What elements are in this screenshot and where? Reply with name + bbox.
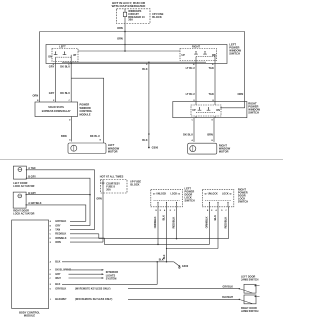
right door lock actuator A2 [13,192,26,208]
svg-text:B: B [50,225,52,227]
svg-text:A TAN: A TAN [28,167,35,170]
BCM riser from E BLK row [156,262,158,285]
svg-text:MODULE: MODULE [24,314,35,318]
svg-text:UP: UP [181,54,185,57]
wire DK BLU right switch to motor [193,118,195,142]
node: GRY splice at column [89,194,91,196]
right power door lock switch (dashed) [202,189,234,207]
svg-text:F: F [50,270,51,272]
svg-text:GRY/BLK: GRY/BLK [55,288,66,291]
svg-text:ORN/BLK: ORN/BLK [153,216,157,228]
svg-text:WITH RAP ENERGIZED: WITH RAP ENERGIZED [112,4,146,8]
internal ground bus of master switch [62,61,206,63]
wire BLK bus between lock switches [167,248,219,250]
wire DK BLU master switch to relay [70,64,72,103]
right window motor M2 [188,143,217,154]
wire B GRY from left actuator [26,178,90,225]
wire LT BLU master to right switch [195,64,197,102]
svg-text:BRN: BRN [207,132,213,136]
svg-text:D: D [221,210,223,212]
left power door lock switch (dashed) [151,189,183,207]
wire ORN down-left to express relay [39,32,41,103]
I/P fuse block (dashed box) [117,9,151,24]
svg-text:BRN: BRN [61,134,67,138]
wire DK BLU branch to left motor [71,78,104,143]
svg-text:E: E [212,120,214,122]
svg-text:D: D [50,274,52,276]
svg-text:A: A [50,220,52,223]
svg-text:SWITCH: SWITCH [185,199,195,203]
svg-text:SWITCH: SWITCH [229,52,240,56]
svg-text:ORN: ORN [96,197,102,200]
pin C wire stub [70,55,72,64]
svg-text:SWITCH: SWITCH [238,200,248,204]
svg-text:B: B [155,210,157,212]
svg-text:G300: G300 [152,146,159,150]
svg-text:GRY: GRY [55,273,61,276]
svg-text:UNLOCK: UNLOCK [156,194,166,196]
wire ORN down-right to right window switch [244,32,246,102]
svg-text:BLK/WHT: BLK/WHT [55,298,67,301]
wire TAN master to right switch [214,64,216,102]
I/P fuse block lower (dashed box) [101,180,128,194]
svg-text:G300: G300 [182,264,189,268]
wire ORN/BLK bus to lock switches [103,238,105,244]
svg-text:SOLID STATE: SOLID STATE [48,106,64,109]
svg-text:POWER: POWER [80,102,90,106]
svg-text:ORN: ORN [237,92,243,96]
svg-text:BLK: BLK [55,261,60,264]
svg-text:LOCK: LOCK [170,194,177,196]
svg-text:LT BLU: LT BLU [186,66,195,70]
svg-text:A: A [191,139,193,142]
node: BLK splice [148,133,150,135]
svg-text:A: A [50,229,52,232]
svg-text:C: C [50,234,52,236]
right door jamb switch [244,295,256,304]
wire ORN feed line to left relay and right switch [40,31,245,33]
svg-text:LT BLU: LT BLU [186,92,195,96]
svg-text:20A: 20A [106,189,111,192]
svg-text:DK BLU: DK BLU [90,134,100,138]
svg-text:DK BLU: DK BLU [60,91,70,95]
svg-text:SYSTEM: SYSTEM [106,277,117,281]
svg-text:MOTOR: MOTOR [219,150,229,154]
wire RED/BLK bus to lock switches [98,234,100,239]
svg-text:RED/BLK: RED/BLK [224,217,228,229]
svg-text:LOCK: LOCK [222,194,229,196]
wire B GRY from right actuator [26,194,90,196]
svg-text:LOCK ACTUATOR: LOCK ACTUATOR [13,213,34,216]
svg-text:ORN: ORN [117,26,123,30]
svg-text:UP: UP [192,109,196,112]
svg-text:D: D [170,210,172,212]
pin wire stubs right sub-switch [195,57,197,64]
svg-text:RED/BLK: RED/BLK [55,233,66,236]
svg-text:A GRY/BLK: A GRY/BLK [28,202,42,205]
svg-text:A: A [50,261,52,264]
svg-text:LEFT: LEFT [59,45,66,49]
svg-text:BLK: BLK [162,215,166,220]
svg-text:WHT: WHT [55,277,61,280]
svg-text:C: C [174,210,176,212]
svg-text:E: E [50,242,52,244]
svg-text:E: E [160,210,162,212]
svg-text:BLK: BLK [55,283,60,286]
node: ORN splice on feed line [124,31,126,33]
svg-text:DN: DN [48,55,52,58]
svg-text:BLK: BLK [142,138,147,142]
svg-text:RED/BLK: RED/BLK [172,217,176,229]
wire GRY master switch to relay [55,64,57,103]
left door jamb switch [244,284,256,293]
svg-text:E: E [50,284,52,286]
wire BRN right switch to motor [213,118,215,142]
pin stubs inside right switch [195,102,197,106]
svg-text:B GRY: B GRY [28,175,36,178]
svg-text:E: E [211,210,213,212]
svg-text:GRY/BLK: GRY/BLK [223,286,234,288]
svg-text:MOTOR: MOTOR [108,149,118,153]
wire ORN from breaker down to master switch [124,24,126,45]
svg-text:BLOCK: BLOCK [152,15,162,19]
node: DK BLU pin splice [70,63,72,65]
left power window switch outer box U1 [46,45,227,64]
svg-text:DN: DN [216,109,220,112]
svg-text:C: C [225,210,227,212]
svg-text:C: C [50,278,52,280]
body control module [12,220,49,309]
wire ORN/BLK left lock switch [157,207,159,245]
wire ORN/BLK right lock switch [209,207,211,245]
svg-text:ORN: ORN [117,37,123,41]
wire RED/BLK right lock switch [228,207,230,239]
svg-text:BLK: BLK [164,254,166,259]
svg-text:LOCK ACTUATOR: LOCK ACTUATOR [13,185,34,188]
left sub-switch contacts [55,52,57,55]
svg-text:TAN: TAN [208,92,213,96]
svg-text:BLK/WHT: BLK/WHT [222,297,233,299]
wire BLK master switch ground [148,64,150,148]
right switch internal feed from ORN [221,102,245,108]
svg-text:J: J [50,299,51,301]
svg-text:TAN: TAN [55,229,60,232]
svg-text:UP: UP [73,54,77,57]
right switch sub-switch dashed box [191,105,221,116]
wire BRN relay to left window motor [71,117,73,142]
left window sub-switch (dashed) [52,49,78,62]
svg-text:GRY/BLK: GRY/BLK [55,220,66,223]
svg-text:ORN: ORN [55,241,61,244]
svg-text:A: A [69,139,71,142]
svg-text:HOT AT ALL TIMES: HOT AT ALL TIMES [100,175,124,179]
svg-text:GRY: GRY [49,64,55,68]
svg-text:ORN/BLK: ORN/BLK [205,216,209,228]
svg-text:MODULE: MODULE [80,113,91,117]
svg-text:JAMB SWITCH: JAMB SWITCH [241,310,259,313]
svg-text:B: B [193,64,195,66]
left door lock actuator A1 [13,166,26,179]
wire GRY/BLK to left jamb switch [128,288,239,290]
svg-text:SWITCH: SWITCH [248,110,259,114]
svg-text:BLK: BLK [213,215,217,220]
wire diagonal to ground [174,262,180,266]
svg-text:BLOCK: BLOCK [130,182,139,186]
svg-text:C: C [192,120,194,122]
wire RED/BLK left lock switch [176,207,178,239]
circuit breaker symbol, WINDOWS CIRCUIT BREAKER 10 30A [124,9,126,12]
svg-text:D: D [50,238,52,240]
wire A GRY/BLK from right actuator [26,205,86,222]
internal B+ bus of master switch [124,45,126,52]
wire BLK left lock switch to ground bus [166,207,168,262]
svg-text:UNLOCK: UNLOCK [208,194,218,196]
svg-text:B GRY: B GRY [28,192,36,195]
svg-text:(W/O REMOTE KEYLESS ONLY): (W/O REMOTE KEYLESS ONLY) [75,298,113,301]
svg-text:B: B [207,210,209,212]
svg-text:ORN: ORN [32,94,38,98]
svg-text:WINDOW: WINDOW [80,106,92,110]
wire BLK right lock switch [217,207,219,249]
right switch contacts [199,108,201,110]
courtesy fuse 8 20A [102,180,104,182]
svg-text:A: A [164,209,166,212]
wire BLK/WHT to right jamb switch [128,298,239,300]
right power window switch U2 [173,102,247,118]
svg-text:(W/ REMOTE KEYLESS ONLY): (W/ REMOTE KEYLESS ONLY) [75,288,111,291]
left window motor M1 [68,143,106,154]
svg-text:D: D [69,119,71,121]
svg-text:BLK: BLK [142,67,147,71]
svg-text:DK BLU: DK BLU [183,132,193,136]
svg-text:30A: 30A [128,18,133,22]
pin E wire stub [55,57,57,63]
right sub-switch contacts [195,52,197,55]
wire A TAN from left actuator [26,170,94,230]
section separator line [0,159,283,161]
svg-text:TAN: TAN [208,66,213,70]
wire ORN fuse to BCM [102,193,104,242]
svg-text:B: B [211,140,213,142]
svg-text:D: D [146,64,148,66]
ground G300 (window switches) [148,147,150,149]
right window sub-switch (dashed) in master [180,49,217,61]
solid state express down relay K1 [35,102,78,117]
svg-text:BLK: BLK [159,259,164,261]
svg-text:GRY: GRY [49,91,55,95]
svg-text:JAMB SWITCH: JAMB SWITCH [241,279,259,282]
ground G300 (door locks) [179,265,181,267]
svg-text:B: B [100,140,102,142]
svg-text:ORN/BLK: ORN/BLK [55,237,66,240]
svg-text:DK BLU: DK BLU [60,64,70,68]
svg-text:A: A [215,209,217,212]
svg-text:RIGHT: RIGHT [192,45,200,49]
svg-text:CONTROL: CONTROL [80,109,93,113]
svg-text:G: G [50,289,52,291]
svg-text:EXPRESS DOWN RELAY: EXPRESS DOWN RELAY [42,110,71,113]
svg-text:GRY: GRY [55,224,61,227]
